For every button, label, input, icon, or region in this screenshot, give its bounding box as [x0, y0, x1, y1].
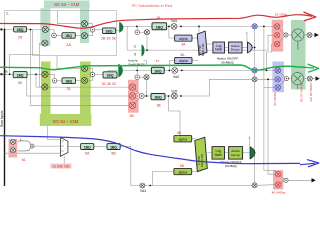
band GC54 U bottom bar — [40, 114, 92, 126]
svg-text:1BQ: 1BQ — [65, 79, 72, 83]
1BQ 2A — [62, 33, 75, 47]
svg-text:1BQ: 1BQ — [154, 96, 162, 100]
svg-text:-1: -1 — [133, 44, 136, 48]
svg-text:1BQ: 1BQ — [154, 69, 162, 73]
svg-text:32–36, 5C: 32–36, 5C — [102, 82, 117, 86]
multiplier 52-band offset 1 — [275, 68, 281, 74]
svg-text:alpha: alpha — [179, 37, 188, 41]
svg-text:5D: 5D — [177, 131, 182, 135]
1BQ 30 — [13, 72, 27, 85]
multiplier Vol1 (rear volume) — [140, 183, 145, 188]
svg-text:21 (D6, D6): 21 (D6, D6) — [52, 164, 69, 168]
1BQ 5E — [151, 94, 165, 108]
multiplier 55-band gain 3 — [129, 102, 136, 109]
svg-text:57: 57 — [156, 59, 160, 63]
adder S7 (band 55 sum) — [139, 94, 144, 99]
svg-text:(0x4B[0]): (0x4B[0]) — [221, 60, 233, 64]
D shape top — [248, 42, 253, 53]
svg-text:55: 55 — [130, 114, 134, 118]
multiplier 40-band offset 1 — [275, 171, 281, 177]
multiplier G1 (L gain, GC53 strip1) — [42, 26, 48, 32]
alpha 3A bottom — [175, 53, 192, 64]
svg-text:2A: 2A — [66, 43, 71, 47]
multiplier 52-band offset 3 — [275, 85, 281, 91]
svg-text:3A: 3A — [181, 43, 186, 47]
1BQ 29 — [14, 27, 27, 40]
Log Math top — [213, 42, 225, 53]
svg-text:5E: 5E — [157, 104, 162, 108]
alpha 5D bottom — [174, 164, 192, 175]
svg-text:I²C Subaddress in Red: I²C Subaddress in Red — [132, 3, 172, 8]
svg-text:1BQ: 1BQ — [17, 28, 24, 32]
multiplier G8 (R gain, GC54 strip2) — [81, 77, 87, 83]
wire row2b — [144, 79, 275, 96]
svg-text:Math: Math — [215, 153, 222, 157]
1BQ 31 — [62, 78, 76, 91]
svg-text:1BQ: 1BQ — [110, 145, 117, 149]
rear input wires — [5, 126, 65, 164]
svg-text:2B–2F, 5E: 2B–2F, 5E — [101, 36, 116, 40]
svg-text:1: 1 — [246, 32, 248, 36]
soft-mute flag row1 — [119, 22, 123, 33]
pink band bottom right — [273, 170, 283, 189]
multiplier V5 master (big) — [291, 73, 303, 85]
rear merge stadium — [19, 141, 31, 151]
svg-text:GC 56 V5RTA: GC 56 V5RTA — [309, 83, 313, 102]
multiplier G3 (cross gain, GC53 strip2) — [81, 21, 87, 27]
multiplier 51-band offset 2 — [274, 32, 280, 38]
svg-text:Decay: Decay — [231, 153, 240, 157]
svg-text:GC 53 – V1M: GC 53 – V1M — [54, 2, 80, 7]
red path — [0, 15, 299, 29]
adder S3 (R mix sum) — [52, 79, 57, 84]
svg-text:29: 29 — [18, 36, 22, 40]
svg-text:30: 30 — [18, 81, 22, 85]
output arrow V2 — [315, 33, 319, 37]
wire row2 main — [1, 70, 275, 80]
alpha taps — [153, 26, 255, 185]
adder S2 (L mix sum 2) — [90, 28, 95, 33]
svg-text:1BQ: 1BQ — [156, 25, 164, 29]
energy parallelogram bottom — [195, 137, 208, 171]
adder S1 (L mix sum) — [52, 33, 57, 38]
multiplier V5 post-gain — [307, 76, 312, 81]
right area cross verticals — [264, 26, 316, 182]
svg-text:5A: 5A — [85, 151, 90, 155]
multiplier 51-band offset 1 — [274, 24, 280, 30]
multiplier 55-band gain 1 — [129, 84, 136, 91]
svg-text:31: 31 — [67, 87, 71, 91]
band GC53 right strip — [80, 8, 89, 43]
pink band top right (V2) — [272, 20, 284, 52]
Attack Decay bottom — [229, 147, 243, 160]
wire 55-band diagonals to adder S7 — [135, 89, 140, 103]
multiplier Vol2 (row2 volume) — [172, 68, 178, 74]
1BQ 5B — [107, 144, 120, 156]
svg-text:Vol1: Vol1 — [140, 189, 146, 193]
svg-text:GC 57 V5RTB: GC 57 V5RTB — [300, 83, 304, 102]
svg-text:Vol2: Vol2 — [171, 90, 177, 94]
mux trapezoid — [60, 138, 68, 157]
multiplier 55-band gain 2 — [129, 93, 136, 100]
green path — [0, 65, 306, 70]
pink band mid (55) — [128, 80, 139, 113]
svg-text:alpha: alpha — [179, 138, 188, 142]
wire row3 — [68, 146, 275, 185]
multiplier M2 (row2 aux gain) — [144, 75, 149, 80]
svg-text:1BQ: 1BQ — [106, 29, 113, 33]
adder S6 (row2 aux) — [135, 75, 140, 80]
svg-text:MSB,LSB: MSB,LSB — [200, 154, 204, 167]
DRC gain vertical line — [254, 29, 256, 183]
cross feed wires left — [10, 11, 130, 105]
svg-text:GC 54 – V2M: GC 54 – V2M — [53, 119, 79, 124]
band GC54 U left strip — [41, 62, 51, 115]
svg-text:3A: 3A — [180, 53, 185, 57]
adder S4 (R mix sum 2) — [90, 72, 95, 77]
multiplier Vol2b (row2b volume) — [171, 93, 177, 99]
svg-text:Decay: Decay — [231, 48, 240, 52]
svg-text:52 V2Ofst: 52 V2Ofst — [273, 92, 277, 106]
adder S9 (V5 output sum) — [285, 77, 289, 81]
svg-text:1BQ: 1BQ — [84, 145, 91, 149]
svg-text:1BQ: 1BQ — [65, 34, 72, 38]
adder S5 (row1 aux) — [135, 30, 140, 35]
adder S11 (rear L+R sum) — [30, 144, 34, 148]
multiplier rear R gain — [11, 148, 16, 153]
multiplier DRC gain row1 (lavender) — [252, 24, 257, 29]
multiplier G7 (cross gain, GC54 strip2) — [81, 65, 87, 71]
svg-text:0: 0 — [134, 53, 136, 57]
svg-text:40 V4Ofst: 40 V4Ofst — [272, 191, 286, 195]
multiplier Vol1 (row1 volume) — [171, 24, 177, 30]
multiplier G4 (L gain, GC53 strip2) — [81, 33, 87, 39]
1BQ 5A — [81, 144, 94, 156]
rear input pink box (subaddr 61) — [9, 139, 18, 158]
Log Math bottom — [212, 147, 225, 160]
multiplier DRC gain rear — [252, 183, 257, 188]
svg-text:R: R — [5, 69, 8, 74]
multiplier 52-band offset 2 — [275, 77, 281, 83]
adder S8 (V2 output sum) — [284, 33, 288, 37]
multiplier DRC gain row2b — [252, 77, 257, 82]
1BQ 32-36 — [102, 72, 117, 86]
feedback loop row1 — [127, 26, 274, 96]
multiplier G5 (R gain, GC54 strip1) — [42, 71, 48, 77]
adder center dots — [31, 29, 287, 181]
outer boundary rect — [4, 11, 116, 186]
svg-text:Vol2: Vol2 — [173, 75, 179, 79]
svg-text:61: 61 — [22, 158, 26, 162]
multiplier 51-band offset 3 — [274, 41, 280, 47]
band GC53-V1M header — [44, 1, 90, 9]
1BQ 56 — [152, 15, 167, 29]
D shape bottom — [250, 147, 255, 159]
wire big multiplier control stubs — [297, 41, 299, 50]
output arrow V5 — [316, 76, 320, 80]
multiplier G2 (cross gain, GC53 strip1) — [42, 40, 48, 46]
multiplier DRC gain row2 (lavender) — [252, 68, 257, 73]
svg-text:51 V2Dig: 51 V2Dig — [275, 13, 287, 17]
wire R crossfeed dog-leg — [10, 55, 40, 75]
band GC54 U right strip — [80, 62, 91, 115]
wire row1 main — [1, 26, 274, 35]
svg-text:(0x4B[1]): (0x4B[1]) — [225, 164, 237, 168]
alpha 5D top — [174, 131, 192, 142]
green band right tall — [291, 20, 306, 89]
svg-text:alpha: alpha — [179, 170, 188, 174]
svg-text:MSB,LSB: MSB,LSB — [201, 43, 205, 56]
svg-text:5B: 5B — [111, 151, 116, 155]
band GC53 left strip — [40, 8, 50, 46]
svg-text:5D: 5D — [180, 164, 185, 168]
multiplier M1 (row1 aux gain) — [144, 30, 149, 35]
1BQ 2B-2F — [101, 28, 116, 40]
adder S10 (V4 output sum) — [284, 178, 288, 182]
output arrow V4 — [312, 178, 316, 182]
multiplier V2 post-gain — [307, 33, 312, 38]
label 21 D6 — [51, 164, 72, 169]
Attack Decay top — [229, 42, 243, 53]
svg-text:Vol1: Vol1 — [171, 19, 177, 23]
svg-text:1BQ: 1BQ — [17, 73, 24, 77]
svg-text:alpha: alpha — [179, 59, 188, 63]
blue path — [0, 136, 300, 164]
1BQ 57 — [151, 59, 164, 74]
switch flag -1/0 row1 — [142, 45, 145, 57]
multiplier G6 (cross gain, GC54 strip1) — [42, 84, 48, 90]
lavender band mid right — [272, 62, 284, 93]
alpha 3A top — [175, 35, 192, 47]
multiplier rear L gain — [11, 139, 16, 144]
energy parallelogram top — [197, 31, 207, 56]
svg-text:1: 1 — [249, 136, 251, 140]
svg-text:Math: Math — [215, 48, 222, 52]
svg-text:Rear Inputs: Rear Inputs — [0, 110, 4, 127]
soft-mute flag row2 — [118, 64, 123, 78]
multiplier 40-band offset 2 — [275, 182, 281, 188]
svg-text:1BQ: 1BQ — [107, 74, 114, 78]
multiplier V2 master (big) — [292, 29, 304, 41]
